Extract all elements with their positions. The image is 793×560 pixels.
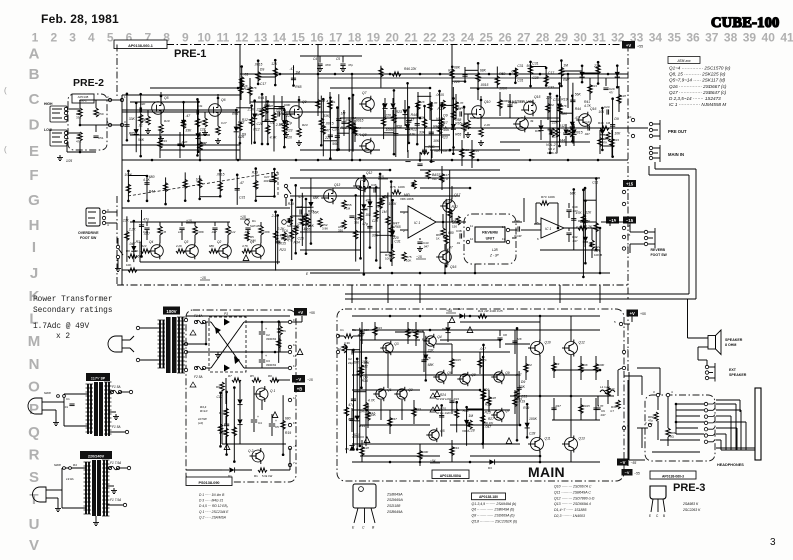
svg-text:.0015: .0015: [325, 122, 334, 126]
svg-text:R47: R47: [422, 338, 428, 342]
diode D200: [583, 199, 588, 264]
AP0138-080A label: [432, 470, 469, 479]
100V label box: [163, 307, 180, 315]
capacitor C198: [367, 186, 378, 249]
resistor R185: [448, 65, 461, 84]
pin 10: [631, 118, 634, 121]
capacitor C168: [139, 210, 150, 258]
rectifier diodes: [211, 322, 244, 368]
svg-text:33K: 33K: [519, 385, 526, 389]
+V supply box: [622, 41, 635, 49]
main resistor chain 3: [406, 322, 415, 344]
resistor R213: [277, 320, 281, 362]
svg-text:R23: R23: [454, 397, 460, 401]
svg-text:REVERB: REVERB: [651, 248, 666, 252]
reverb bottom rail: [310, 272, 610, 274]
main wires out: [577, 395, 598, 397]
mesh wire 12: [300, 149, 380, 151]
resistor R39: [558, 96, 568, 122]
resistor R126: [431, 104, 450, 154]
svg-text:100K: 100K: [398, 185, 405, 189]
inter-block wire 4: [559, 285, 561, 303]
svg-text:D9: D9: [614, 117, 618, 121]
C36 cap: [373, 187, 375, 192]
resistor R24: [316, 92, 325, 116]
svg-text:C31: C31: [511, 70, 517, 74]
svg-text:Q8, 15 ··········· 2SK225 (: Q8, 15 ··········· 2SK225 (e): [669, 72, 726, 77]
mesh wire 33: [552, 419, 600, 421]
svg-text:D: D: [29, 117, 40, 134]
svg-text:J: J: [30, 265, 38, 282]
R64 resistor: [456, 216, 460, 225]
resistor R1 47K: [282, 232, 286, 241]
main inner rail y330: [352, 329, 600, 331]
capacitor overdrive: [179, 227, 184, 229]
+V +55 box: [294, 308, 307, 316]
capacitor C4: [317, 63, 322, 65]
svg-text:R23: R23: [377, 326, 383, 330]
svg-text:G: G: [28, 192, 40, 209]
R49 resistor: [568, 128, 572, 137]
headphone feed y452: [652, 451, 700, 453]
svg-text:1M: 1M: [341, 111, 346, 115]
svg-text:Q11 ········· 2SB649A C: Q11 ········· 2SB649A C: [554, 490, 591, 494]
svg-text:2SD669A: 2SD669A: [386, 498, 403, 502]
main inner rail y352: [352, 351, 510, 353]
117V label box: [86, 373, 110, 381]
svg-text:4.7K: 4.7K: [432, 101, 439, 105]
C45 vertical wire: [599, 228, 601, 273]
svg-text:R12: R12: [280, 112, 286, 116]
svg-text:R47: R47: [556, 404, 562, 408]
op-amp IC1a: [408, 206, 436, 238]
R74 resistor: [390, 250, 394, 259]
svg-text:−V: −V: [620, 460, 625, 465]
svg-text:R19: R19: [523, 406, 529, 410]
mesh wire 23: [460, 321, 540, 323]
svg-text:2.2K: 2.2K: [175, 244, 183, 248]
main resistor chain 21: [551, 398, 561, 420]
pin 7b: [288, 463, 291, 466]
vertical x318: [317, 44, 319, 112]
main resistor chain 12: [388, 410, 397, 434]
resistor R162: [196, 175, 203, 200]
svg-text:C31: C31: [517, 79, 523, 83]
T1 pin 4: [184, 342, 187, 345]
mesh wire 28: [360, 424, 430, 426]
dashed gang line tone: [277, 172, 279, 196]
svg-text:C28: C28: [529, 431, 535, 435]
svg-text:20: 20: [386, 31, 400, 45]
extra dots y74: [317, 73, 320, 76]
left border of PRE-1 block: [116, 45, 118, 97]
wire c45 out: [601, 221, 610, 223]
main resistor chain 7: [478, 352, 487, 374]
diode D141: [570, 94, 583, 142]
main resistor chain 25: [593, 398, 604, 420]
main inner rail y375: [352, 374, 520, 376]
transistor Q8 switch: [362, 140, 375, 153]
svg-text:11: 11: [293, 354, 296, 358]
svg-text:N: N: [29, 356, 40, 373]
svg-text:47K: 47K: [280, 234, 287, 238]
svg-text:E: E: [306, 272, 309, 276]
diode D151: [296, 178, 320, 244]
C35 cap: [299, 209, 301, 214]
resistor R174: [480, 344, 487, 444]
transformer T1 core: [166, 317, 171, 373]
resistor R5 3.9K: [245, 232, 249, 241]
svg-text:.047: .047: [600, 413, 606, 417]
diode D123: [405, 82, 416, 152]
+15 box right: [623, 180, 636, 187]
svg-text:49: 49: [530, 119, 534, 123]
cap C5b: [269, 423, 275, 425]
transistor Q2 regulator: [252, 450, 264, 462]
svg-text:22K: 22K: [419, 100, 426, 104]
capacitor C208: [515, 371, 527, 424]
pre3 bus down: [627, 380, 629, 466]
mesh wire 1: [150, 87, 238, 89]
T3 sw label: [63, 467, 66, 470]
svg-text:38: 38: [724, 31, 738, 45]
wires to foot sw: [630, 231, 644, 233]
resistor R16: [248, 78, 258, 104]
mesh wire 5: [250, 101, 318, 103]
svg-text:B: B: [663, 514, 665, 518]
svg-text:Q6 ·············· 2SB649A (b: Q6 ·············· 2SB649A (b): [472, 508, 515, 512]
svg-text:3.9K: 3.9K: [322, 226, 328, 230]
svg-text:R19: R19: [288, 202, 294, 206]
svg-text:4.7K: 4.7K: [368, 398, 376, 402]
svg-text:Z - 3P: Z - 3P: [489, 254, 500, 258]
main resistor chain 22: [579, 356, 589, 380]
svg-text:C1: C1: [66, 397, 70, 401]
svg-text:4: 4: [671, 390, 673, 394]
svg-text:AP0138-060-1: AP0138-060-1: [128, 44, 153, 48]
T2 plug: [28, 398, 42, 414]
220/240V label box: [80, 451, 112, 459]
svg-text:C: C: [656, 514, 659, 518]
svg-text:11: 11: [217, 31, 230, 45]
capacitor C9: [177, 132, 188, 158]
capacitor C8: [279, 96, 291, 120]
switch S1: [284, 184, 287, 187]
svg-text:Q12: Q12: [579, 341, 585, 345]
PRE-2 output wires: [96, 99, 110, 101]
transistor Q13 main: [565, 438, 578, 451]
main C2 cap: [351, 349, 353, 354]
svg-text:F1 7.5A: F1 7.5A: [110, 498, 121, 502]
svg-text:C: C: [29, 91, 40, 108]
svg-text:D1,4~7 ······ 1S1885: D1,4~7 ······ 1S1885: [554, 508, 586, 512]
svg-text:50 kw 1/2Ω: 50 kw 1/2Ω: [436, 411, 451, 415]
svg-text:−15: −15: [416, 255, 422, 259]
svg-text:47p: 47p: [348, 63, 353, 67]
svg-text:68K: 68K: [480, 69, 487, 73]
headphone feed y440: [660, 439, 700, 441]
R6 resistor: [278, 326, 282, 335]
svg-text:.047: .047: [572, 239, 578, 243]
capacitor C159: [128, 175, 155, 202]
bus y178: [290, 177, 600, 179]
resistor overdrive collector: [226, 226, 230, 235]
left border overdrive block: [116, 196, 118, 285]
pin 8 right: [622, 247, 625, 250]
resistor R108: [262, 95, 284, 151]
svg-text:.047: .047: [211, 230, 217, 234]
resistor R190: [527, 61, 539, 88]
svg-text:R9: R9: [216, 385, 220, 389]
svg-text:56K: 56K: [443, 128, 450, 132]
svg-text:35: 35: [668, 31, 682, 45]
svg-text:ATM-xxx: ATM-xxx: [676, 59, 690, 63]
svg-text:68K: 68K: [353, 361, 360, 365]
svg-text:.01: .01: [138, 123, 143, 127]
svg-text:.0015: .0015: [216, 172, 224, 176]
capacitor C17: [507, 94, 518, 118]
capacitor C164: [235, 174, 246, 205]
svg-text:Q9: Q9: [505, 371, 510, 375]
main out pin 3: [622, 426, 625, 429]
svg-text:Q13: Q13: [334, 183, 340, 187]
svg-text:L1 1μH: L1 1μH: [600, 385, 610, 389]
transistor Q17: [443, 200, 456, 213]
svg-text:R19: R19: [252, 171, 258, 175]
T2 out2: [109, 431, 126, 433]
svg-text:Q5,8 ············ 2SC2362K (b: Q5,8 ············ 2SC2362K (b): [472, 520, 518, 524]
svg-text:E: E: [29, 143, 39, 160]
svg-text:13: 13: [254, 31, 268, 45]
svg-text:.047: .047: [485, 425, 492, 429]
resistor R43: [617, 86, 626, 112]
inter-block wire 2: [387, 285, 389, 303]
svg-text:P: P: [29, 401, 39, 418]
svg-text:1: 1: [124, 95, 126, 99]
svg-text:4.7K: 4.7K: [143, 178, 151, 182]
transistor Q10 main: [531, 342, 544, 355]
diode D193: [561, 65, 584, 84]
svg-text:680: 680: [285, 416, 291, 420]
svg-text:Q16: Q16: [450, 265, 457, 269]
svg-text:25: 25: [480, 31, 494, 45]
resistor R150: [294, 184, 304, 254]
main resistor chain 18: [513, 390, 522, 414]
T3 plug: [33, 487, 47, 502]
svg-text:C28: C28: [532, 76, 538, 80]
dashed gang line overdrive: [128, 172, 278, 196]
svg-text:3: 3: [770, 537, 776, 548]
resistor R133: [337, 97, 357, 152]
transistor Q8 main: [460, 374, 470, 384]
reverb pin 13: [506, 240, 509, 243]
main resistor chain 19: [524, 356, 532, 380]
capacitor C128: [545, 92, 559, 154]
svg-text:−15: −15: [200, 276, 206, 280]
svg-text:Q4: Q4: [149, 240, 153, 244]
main resistor chain 14: [360, 440, 369, 462]
capacitor overdrive: [144, 227, 149, 229]
svg-text:R12: R12: [559, 124, 565, 128]
svg-text:10K B: 10K B: [594, 253, 602, 257]
TO-92 package: [650, 486, 666, 499]
mid bus dots: [199, 159, 202, 162]
R1 psu: [258, 468, 267, 472]
main wires h3: [505, 343, 530, 345]
svg-text:R65: R65: [455, 121, 461, 125]
long wire bottom to reverb: [460, 221, 464, 223]
speaker feed wires: [641, 376, 643, 395]
svg-text:C5: C5: [275, 425, 279, 429]
svg-text:47K: 47K: [576, 211, 583, 215]
svg-text:D9: D9: [556, 362, 560, 366]
headphone tip wire: [716, 399, 740, 401]
svg-text:.047: .047: [452, 219, 459, 223]
svg-text:10K: 10K: [598, 110, 605, 114]
regulator R9: [220, 382, 224, 391]
resistor R184: [379, 66, 383, 88]
svg-text:3.9K: 3.9K: [250, 238, 256, 242]
diode D127: [442, 87, 462, 155]
svg-text:R23: R23: [485, 403, 491, 407]
svg-text:330: 330: [354, 220, 359, 224]
diode D144: [360, 175, 372, 276]
main mid rail out: [510, 395, 608, 397]
svg-text:9: 9: [628, 131, 630, 135]
svg-text:47p: 47p: [298, 195, 304, 199]
capacitor C132: [323, 106, 340, 151]
svg-text:MAIN: MAIN: [528, 464, 565, 480]
svg-text:+55: +55: [640, 312, 646, 316]
main resistor chain 10: [412, 400, 421, 424]
svg-text:100V: 100V: [166, 309, 176, 314]
svg-text:1K: 1K: [436, 236, 440, 240]
svg-text:C28: C28: [364, 446, 370, 450]
main resistor chain 20: [552, 356, 560, 378]
svg-text:1M: 1M: [162, 230, 167, 234]
transformer T1 secondary: [178, 317, 180, 373]
svg-text:10K: 10K: [126, 263, 131, 267]
svg-text:100K: 100K: [422, 450, 430, 454]
svg-text:O: O: [28, 379, 40, 396]
svg-text:U: U: [29, 516, 40, 533]
overdrive bottom rail: [122, 269, 360, 271]
VOL-4 pot: [288, 216, 292, 225]
transformer T1 primary: [159, 320, 161, 368]
resistor R210: [232, 386, 236, 463]
svg-text:15: 15: [293, 421, 297, 425]
T1 pin 2: [184, 318, 187, 321]
tone network caps: [405, 159, 410, 161]
svg-text:C17: C17: [444, 173, 450, 177]
transistor Q2 overdrive: [219, 245, 232, 258]
pin 7 right: [622, 190, 625, 193]
resistor R41 47K: [588, 78, 597, 100]
PRE-2 C52 capacitor: [93, 135, 98, 137]
svg-text:PRE-3: PRE-3: [673, 482, 705, 494]
svg-text:1M: 1M: [382, 210, 387, 214]
wire r85 up: [609, 222, 611, 226]
top border of PRE-1 block: [167, 44, 628, 46]
svg-text:R2: R2: [337, 347, 341, 351]
svg-text:.47: .47: [239, 181, 244, 185]
TO-220 package: [353, 484, 376, 508]
resistor R115: [266, 100, 278, 145]
svg-text:C28: C28: [621, 94, 627, 98]
svg-text:100K A: 100K A: [547, 151, 557, 155]
svg-text:D 3 ····· M4G 31: D 3 ····· M4G 31: [199, 499, 223, 503]
svg-text:D9: D9: [443, 114, 447, 118]
svg-text:68K: 68K: [313, 196, 320, 200]
svg-text:56K: 56K: [332, 142, 339, 146]
REVERB UNIT box: [475, 227, 505, 242]
svg-text:47p: 47p: [482, 358, 487, 362]
capacitor C183: [290, 65, 302, 89]
svg-text:.0015: .0015: [583, 404, 591, 408]
PRE-3 board outline: [645, 395, 715, 461]
resistor R106: [236, 104, 260, 144]
svg-text:1M: 1M: [295, 71, 300, 75]
bus y196: [290, 195, 460, 197]
svg-text:.47: .47: [448, 245, 453, 249]
svg-text:C17: C17: [221, 121, 227, 125]
diode D111: [181, 101, 192, 148]
svg-text:R23: R23: [592, 84, 598, 88]
svg-text:C26: C26: [298, 236, 304, 240]
svg-text:5: 5: [614, 320, 616, 324]
svg-text:Q10 ········· 2SD667A C: Q10 ········· 2SD667A C: [554, 485, 592, 489]
resistor R103: [181, 103, 185, 147]
grid row letters A-V: [28, 46, 41, 555]
svg-text:.0015: .0015: [454, 358, 462, 362]
svg-text:.0015: .0015: [574, 130, 583, 134]
resistor R107: [258, 93, 270, 145]
diode D112: [195, 100, 206, 153]
main resistor chain 16: [450, 440, 459, 462]
svg-text:P3: P3: [224, 312, 228, 316]
fuse F1: [194, 320, 197, 323]
svg-text:R7: R7: [228, 374, 232, 378]
svg-text:Q10: Q10: [484, 100, 491, 104]
capacitor C118: [326, 96, 339, 160]
-15b box right: [623, 217, 636, 224]
resistor R37b: [598, 130, 606, 154]
vertical x240: [239, 44, 241, 160]
mesh wire 14: [300, 169, 390, 171]
svg-text:IC 1: IC 1: [545, 227, 551, 231]
reverb foot sw jack: [644, 230, 647, 233]
master vol pot: [516, 118, 529, 131]
svg-text:−55: −55: [631, 461, 637, 465]
mesh wire 19: [300, 231, 380, 233]
svg-text:R4: R4: [73, 463, 77, 467]
capacitor C13: [341, 110, 351, 136]
resistor R199: [384, 193, 390, 252]
svg-text:Q12 ········· 2SD7880 α·Ω: Q12 ········· 2SD7880 α·Ω: [554, 496, 595, 500]
svg-text:47K: 47K: [252, 86, 258, 90]
svg-text:R44: R44: [454, 446, 460, 450]
diode D203: [463, 406, 475, 446]
svg-text:100K: 100K: [197, 230, 205, 234]
main bias trim: [468, 420, 472, 429]
svg-text:C28: C28: [257, 122, 263, 126]
svg-text:+: +: [265, 354, 267, 358]
capacitor C186: [452, 67, 467, 83]
svg-text:CUBE-100: CUBE-100: [711, 15, 779, 31]
svg-text:100K: 100K: [548, 195, 555, 199]
PRE-3 pin 4: [666, 393, 669, 396]
svg-text:Q 1 ····· 2SC2344 E: Q 1 ····· 2SC2344 E: [199, 510, 229, 514]
